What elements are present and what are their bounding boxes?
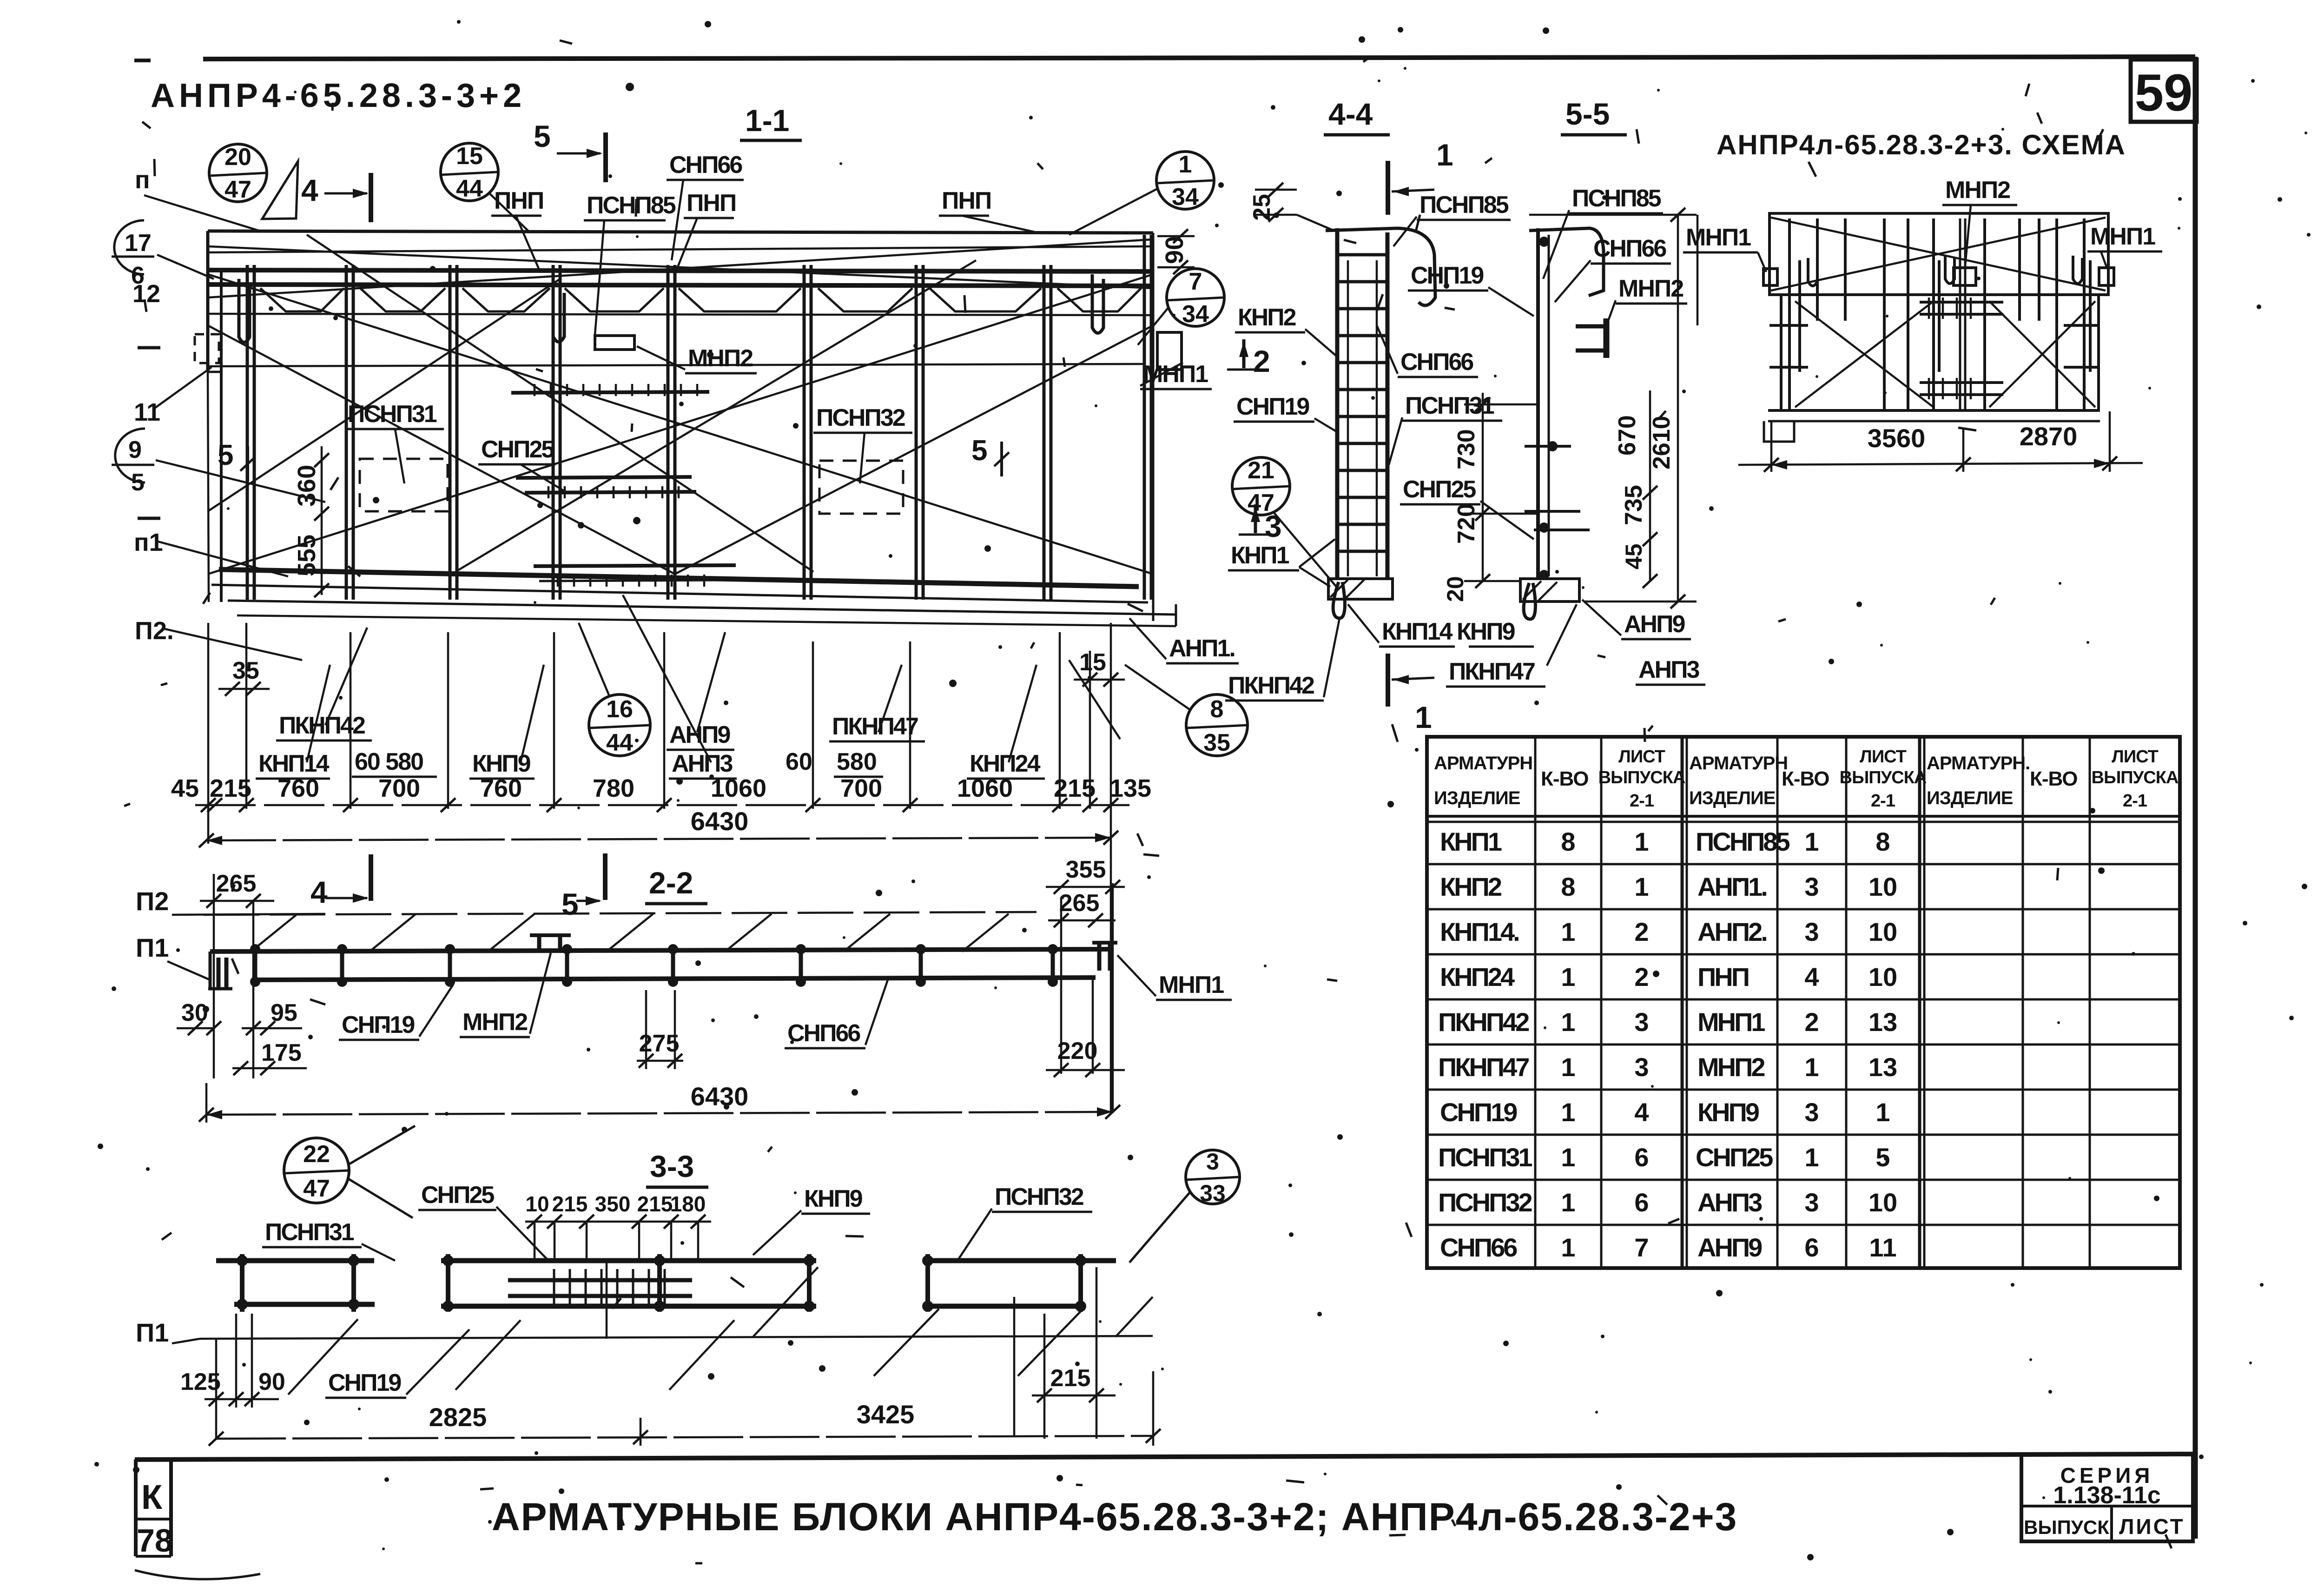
svg-text:СНП19: СНП19 <box>1440 1097 1517 1127</box>
svg-text:47: 47 <box>1248 489 1274 516</box>
dim row texts <box>171 774 1151 802</box>
svg-text:10: 10 <box>525 1192 549 1216</box>
extension lines below main view <box>208 623 1111 1112</box>
svg-text:МНП2: МНП2 <box>1618 275 1683 302</box>
svg-text:20: 20 <box>224 144 251 171</box>
2-2 left end hook <box>209 952 212 989</box>
svg-text:33: 33 <box>1200 1180 1226 1206</box>
svg-text:4: 4 <box>1804 962 1819 991</box>
svg-text:2610: 2610 <box>1648 416 1675 469</box>
svg-text:ПКНП47: ПКНП47 <box>1449 658 1535 685</box>
svg-text:ВЫПУСК: ВЫПУСК <box>2024 1516 2109 1538</box>
5-5 boot <box>1520 579 1579 602</box>
svg-text:8: 8 <box>1561 827 1575 856</box>
svg-text:720: 720 <box>1453 503 1480 544</box>
4-4 ladder rungs <box>1337 255 1387 551</box>
5-5 right vertical leader frame <box>1697 215 1699 325</box>
scheme top band diagonals <box>1771 218 2106 291</box>
svg-text:1: 1 <box>1804 1143 1819 1172</box>
3-3 dims 10 215 350 215 180 <box>525 1192 706 1216</box>
2-2 top dash line <box>204 912 1037 915</box>
svg-text:215: 215 <box>210 774 251 802</box>
svg-text:3: 3 <box>1804 1097 1819 1127</box>
svg-text:1: 1 <box>1634 827 1649 856</box>
5-5 mid bars <box>1525 510 1580 513</box>
rebar U hooks <box>239 279 250 343</box>
svg-text:ВЫПУСКА: ВЫПУСКА <box>2092 768 2179 787</box>
balloon 22/47 pennant <box>349 1126 415 1164</box>
svg-text:ИЗДЕЛИЕ: ИЗДЕЛИЕ <box>1434 788 1520 808</box>
svg-text:КНП24: КНП24 <box>1440 962 1515 991</box>
svg-text:ПКНП42: ПКНП42 <box>279 712 365 739</box>
svg-text:АНП3: АНП3 <box>1697 1188 1762 1217</box>
3-3 diagonal leaders <box>288 1267 1153 1395</box>
svg-text:6: 6 <box>1634 1143 1649 1172</box>
svg-text:АНП9: АНП9 <box>1624 611 1684 638</box>
svg-text:90: 90 <box>258 1368 285 1395</box>
svg-text:6: 6 <box>1634 1188 1649 1217</box>
scheme verticals <box>1789 218 2090 409</box>
svg-text:2-1: 2-1 <box>2123 791 2147 811</box>
svg-text:МНП1: МНП1 <box>1159 972 1224 998</box>
svg-text:К: К <box>141 1478 163 1516</box>
svg-text:6: 6 <box>1804 1233 1819 1262</box>
svg-text:АНП1.: АНП1. <box>1169 635 1235 662</box>
svg-text:10: 10 <box>1868 962 1897 991</box>
svg-text:265: 265 <box>216 870 257 897</box>
svg-text:2825: 2825 <box>429 1402 487 1432</box>
balloon 1/34 <box>1156 152 1214 209</box>
svg-text:34: 34 <box>1182 301 1209 328</box>
svg-text:1: 1 <box>1561 1052 1575 1082</box>
svg-text:КНП9: КНП9 <box>804 1185 862 1212</box>
5-5 main bars <box>1536 228 1540 578</box>
svg-text:ВЫПУСКА: ВЫПУСКА <box>1598 768 1685 787</box>
svg-text:60: 60 <box>786 748 812 775</box>
svg-text:8: 8 <box>1210 696 1224 723</box>
svg-text:12: 12 <box>132 280 160 308</box>
svg-text:1-1: 1-1 <box>745 103 789 138</box>
anchor left dashed square <box>195 334 219 363</box>
5-5 dim 730 720 20 <box>1482 393 1484 581</box>
svg-text:13: 13 <box>1868 1052 1897 1082</box>
3-3 assembly 1 <box>216 1258 374 1263</box>
scheme U hooks <box>1808 258 1817 286</box>
5-5 dots <box>1539 237 1558 580</box>
svg-text:580: 580 <box>837 748 877 775</box>
svg-text:АНП2.: АНП2. <box>1697 917 1766 946</box>
svg-text:3: 3 <box>1634 1007 1649 1037</box>
svg-text:К-ВО: К-ВО <box>1782 767 1829 790</box>
2-2 МНП1 anchor right <box>1092 941 1117 945</box>
svg-text:2-1: 2-1 <box>1871 791 1895 811</box>
svg-text:ПНП: ПНП <box>942 187 991 214</box>
title block СЕРИЯ <box>2021 1454 2193 1541</box>
svg-text:2: 2 <box>1634 962 1649 991</box>
4-4 top flange hook <box>1326 228 1435 305</box>
svg-text:700: 700 <box>378 774 420 802</box>
svg-text:ИЗДЕЛИЕ: ИЗДЕЛИЕ <box>1689 788 1776 808</box>
svg-text:1: 1 <box>1804 827 1819 856</box>
svg-text:4: 4 <box>1634 1097 1649 1127</box>
svg-text:3: 3 <box>1206 1149 1219 1175</box>
2-2 top bar <box>210 949 1113 952</box>
svg-text:СНП66: СНП66 <box>1593 235 1666 262</box>
svg-text:5: 5 <box>218 439 233 471</box>
svg-text:К-ВО: К-ВО <box>2030 767 2077 790</box>
3-3 base line <box>200 1336 1153 1339</box>
2-2 hatch diagonals <box>251 914 1009 952</box>
svg-text:4: 4 <box>301 173 318 207</box>
svg-text:К-ВО: К-ВО <box>1541 767 1588 790</box>
svg-text:3: 3 <box>1804 1188 1819 1217</box>
svg-text:355: 355 <box>1066 856 1106 883</box>
svg-text:25: 25 <box>1248 194 1275 221</box>
svg-text:2: 2 <box>1804 1007 1819 1037</box>
main view gusset row line <box>208 314 1153 315</box>
svg-text:8: 8 <box>1875 827 1890 856</box>
svg-text:П2.: П2. <box>135 617 174 645</box>
svg-text:135: 135 <box>1109 774 1151 802</box>
table data col 2 <box>1696 827 1790 1262</box>
svg-text:5: 5 <box>971 435 987 467</box>
svg-text:60 580: 60 580 <box>355 748 423 775</box>
2-2 right extension boundary <box>1112 883 1114 1112</box>
svg-text:ПСНП85: ПСНП85 <box>1696 827 1790 856</box>
svg-text:2: 2 <box>1253 344 1270 378</box>
svg-text:АНП9: АНП9 <box>1697 1233 1762 1262</box>
svg-text:п: п <box>135 166 150 194</box>
2-2 stirrups with dots <box>255 945 1053 986</box>
scheme top band <box>1769 213 2108 295</box>
svg-text:АРМАТУРН.: АРМАТУРН. <box>1927 753 2030 773</box>
svg-text:МНП2: МНП2 <box>462 1009 527 1036</box>
svg-text:СНП25: СНП25 <box>421 1182 494 1209</box>
svg-text:СНП25: СНП25 <box>1403 476 1476 503</box>
svg-text:180: 180 <box>670 1192 706 1216</box>
svg-text:ПСНП31: ПСНП31 <box>265 1219 354 1246</box>
svg-text:735: 735 <box>1620 485 1647 525</box>
svg-text:ЛИСТ: ЛИСТ <box>1860 747 1906 767</box>
svg-text:6430: 6430 <box>691 806 749 836</box>
svg-text:44: 44 <box>606 729 633 756</box>
svg-text:13: 13 <box>1868 1007 1897 1037</box>
4-4 marker 2 <box>1242 339 1246 368</box>
svg-text:ПСНП32: ПСНП32 <box>995 1183 1083 1210</box>
svg-text:КНП14 КНП9: КНП14 КНП9 <box>1382 618 1515 645</box>
dashed rect ПСНП31 target <box>360 459 448 511</box>
scheme side tick bars <box>1769 366 1808 369</box>
svg-text:7: 7 <box>1634 1233 1649 1262</box>
svg-text:1: 1 <box>1561 962 1575 991</box>
svg-text:47: 47 <box>303 1175 330 1202</box>
svg-text:ИЗДЕЛИЕ: ИЗДЕЛИЕ <box>1927 788 2013 808</box>
svg-text:СНП19: СНП19 <box>342 1011 414 1038</box>
svg-text:215: 215 <box>552 1192 588 1216</box>
svg-text:215: 215 <box>637 1192 673 1216</box>
main view bottom chord band <box>219 569 1139 587</box>
anchor МНП2 center plate <box>595 336 634 350</box>
svg-text:ПНП: ПНП <box>494 187 543 214</box>
svg-text:АНПР4л-65.28.3-2+3. СХЕМА: АНПР4л-65.28.3-2+3. СХЕМА <box>1717 129 2126 160</box>
svg-text:СНП19: СНП19 <box>328 1369 401 1396</box>
svg-text:СНП66: СНП66 <box>1440 1233 1517 1262</box>
svg-text:175: 175 <box>261 1039 302 1066</box>
svg-text:22: 22 <box>303 1141 330 1168</box>
svg-text:4: 4 <box>310 875 328 909</box>
svg-text:ЛИСТ: ЛИСТ <box>2112 747 2158 767</box>
balloon 8/35 <box>1186 694 1248 756</box>
svg-text:ПСНП31: ПСНП31 <box>348 401 437 428</box>
svg-text:ЛИСТ: ЛИСТ <box>2119 1514 2185 1539</box>
4-4 column verticals <box>1335 228 1340 578</box>
scheme bottom plate <box>1768 409 2100 412</box>
svg-text:ПКНП42: ПКНП42 <box>1438 1007 1529 1037</box>
svg-text:1: 1 <box>1561 917 1575 946</box>
dim row tick line <box>195 804 1129 806</box>
svg-text:10: 10 <box>1868 872 1897 901</box>
svg-text:П1: П1 <box>136 1318 169 1347</box>
svg-text:7: 7 <box>1189 268 1202 295</box>
svg-text:МНП1: МНП1 <box>1686 224 1751 251</box>
svg-text:МНП2: МНП2 <box>688 345 753 372</box>
svg-text:КНП2: КНП2 <box>1440 872 1501 901</box>
5-5 top flange hook <box>1529 228 1604 296</box>
svg-text:17: 17 <box>125 230 152 257</box>
svg-text:ПСНП85: ПСНП85 <box>1572 185 1661 212</box>
svg-text:П1: П1 <box>136 933 169 962</box>
svg-text:МНП1: МНП1 <box>2090 223 2155 250</box>
balloon 15/44 <box>441 143 498 201</box>
left margin leaders <box>157 255 214 279</box>
svg-text:3-3: 3-3 <box>650 1149 694 1183</box>
3-3 assembly 2 <box>441 1258 816 1263</box>
5-5 МНП2 anchor <box>1576 324 1609 329</box>
svg-text:9: 9 <box>128 436 142 463</box>
svg-text:4-4: 4-4 <box>1328 97 1373 131</box>
balloon 22/47 <box>284 1138 349 1203</box>
svg-text:МНП1: МНП1 <box>1697 1007 1765 1037</box>
svg-text:МНП1: МНП1 <box>1143 361 1208 388</box>
svg-text:555: 555 <box>293 535 321 576</box>
svg-text:47: 47 <box>224 176 251 203</box>
svg-text:3560: 3560 <box>1868 423 1926 453</box>
web mid line <box>209 364 1143 366</box>
svg-text:8: 8 <box>1561 872 1575 901</box>
svg-text:АНП3: АНП3 <box>672 750 733 777</box>
svg-text:20: 20 <box>1442 576 1468 602</box>
3-3 splice bars with hatch <box>508 1278 692 1282</box>
balloon 21/47 <box>1232 457 1290 515</box>
svg-text:ПКНП42: ПКНП42 <box>1228 672 1314 699</box>
svg-text:11: 11 <box>134 398 160 426</box>
center splice bars with hatch <box>511 392 709 393</box>
svg-text:КНП1: КНП1 <box>1231 542 1289 569</box>
balloon 20/47 pennant <box>262 161 298 219</box>
svg-text:6430: 6430 <box>691 1082 749 1111</box>
svg-text:1: 1 <box>1561 1233 1575 1262</box>
svg-text:ПКНП47: ПКНП47 <box>832 713 918 740</box>
svg-text:ЛИСТ: ЛИСТ <box>1618 747 1665 767</box>
svg-text:КНП14: КНП14 <box>258 750 330 777</box>
scheme lower band X braces <box>1795 301 1934 407</box>
svg-text:АНПР4-65.28.3-3+2: АНПР4-65.28.3-3+2 <box>151 77 526 114</box>
svg-text:2: 2 <box>1634 917 1649 946</box>
svg-text:215: 215 <box>1054 774 1096 802</box>
main view right end cap <box>1152 233 1155 621</box>
scheme lower band <box>1781 295 2099 410</box>
svg-text:1: 1 <box>1875 1097 1890 1127</box>
scan specks <box>304 36 2261 1481</box>
balloon 20/47 <box>209 144 267 202</box>
svg-text:78: 78 <box>137 1522 173 1559</box>
svg-text:КНП24: КНП24 <box>970 750 1041 777</box>
svg-text:21: 21 <box>1248 457 1274 484</box>
svg-text:125: 125 <box>180 1368 221 1395</box>
main view top chord <box>208 231 1153 233</box>
svg-text:15: 15 <box>456 143 483 170</box>
svg-text:44: 44 <box>456 175 483 202</box>
svg-text:45: 45 <box>1621 543 1647 569</box>
svg-text:ПСНП85: ПСНП85 <box>1419 192 1509 218</box>
svg-text:ПСНП32: ПСНП32 <box>1438 1188 1532 1217</box>
svg-text:АРМАТУРН: АРМАТУРН <box>1689 753 1788 773</box>
svg-text:2-1: 2-1 <box>1630 791 1654 811</box>
svg-text:ПСНП85: ПСНП85 <box>587 192 676 219</box>
balloon 16/44 <box>589 694 650 756</box>
svg-text:10: 10 <box>1868 917 1897 946</box>
svg-text:АРМАТУРНЫЕ БЛОКИ АНПР4-65.28.3: АРМАТУРНЫЕ БЛОКИ АНПР4-65.28.3-3+2; АНПР… <box>492 1495 1737 1539</box>
gussets <box>260 288 344 311</box>
svg-text:1: 1 <box>1804 1052 1819 1082</box>
svg-text:1.138-11с: 1.138-11с <box>2053 1482 2160 1509</box>
svg-text:АНП3: АНП3 <box>1638 656 1699 683</box>
svg-text:АНП1.: АНП1. <box>1697 872 1766 901</box>
main view top flange bars <box>208 270 1153 271</box>
К 78 stamp box <box>134 1460 138 1556</box>
svg-text:1: 1 <box>1634 872 1649 901</box>
2-2 bottom bar <box>253 978 1096 980</box>
svg-text:275: 275 <box>639 1030 680 1057</box>
sheet bottom frame line <box>135 1454 2195 1460</box>
svg-text:АРМАТУРН: АРМАТУРН <box>1434 753 1532 773</box>
4-4 boot <box>1328 579 1393 599</box>
svg-text:59: 59 <box>2135 64 2193 122</box>
svg-text:5: 5 <box>131 469 145 496</box>
svg-text:КНП14.: КНП14. <box>1440 917 1519 946</box>
svg-text:2870: 2870 <box>2020 422 2078 451</box>
svg-text:КНП2: КНП2 <box>1238 304 1296 331</box>
dashed rect ПСНП32 target <box>819 461 903 514</box>
scheme dims 3560 2870 <box>1770 421 1773 472</box>
svg-text:1: 1 <box>1561 1007 1575 1037</box>
svg-text:215: 215 <box>1050 1365 1091 1392</box>
svg-text:1: 1 <box>1561 1188 1575 1217</box>
balloon 3/33 <box>1186 1150 1240 1204</box>
leader strokes to labels <box>307 595 1120 762</box>
main view long diagonal lacing <box>208 235 1153 574</box>
scheme center splice <box>1920 301 2003 304</box>
svg-text:СНП25: СНП25 <box>481 436 554 463</box>
svg-text:670: 670 <box>1614 415 1641 456</box>
balloon 7/34 <box>1167 269 1224 326</box>
5-5 dim 45 735 670 2610 <box>1649 390 1651 581</box>
svg-text:15: 15 <box>1079 649 1106 676</box>
svg-text:11: 11 <box>1869 1233 1896 1262</box>
svg-text:265: 265 <box>1059 890 1100 917</box>
svg-text:16: 16 <box>606 696 633 723</box>
svg-text:2-2: 2-2 <box>649 866 693 900</box>
svg-text:730: 730 <box>1453 429 1480 469</box>
svg-text:МНП2: МНП2 <box>1697 1052 1764 1082</box>
svg-text:3: 3 <box>1804 917 1819 946</box>
svg-text:45: 45 <box>171 774 199 802</box>
table data col 1 <box>1438 827 1532 1262</box>
svg-text:ПНП: ПНП <box>1697 962 1749 991</box>
svg-text:780: 780 <box>593 774 634 802</box>
svg-text:ПКНП47: ПКНП47 <box>1438 1052 1529 1082</box>
svg-text:СНП19: СНП19 <box>1236 393 1309 420</box>
main view vertical stirrup bars <box>247 235 1151 600</box>
svg-text:ВЫПУСКА: ВЫПУСКА <box>1840 768 1927 787</box>
svg-text:35: 35 <box>232 657 259 684</box>
svg-text:СНП66: СНП66 <box>669 152 742 178</box>
svg-text:КНП1: КНП1 <box>1440 827 1502 856</box>
svg-text:350: 350 <box>595 1192 631 1216</box>
svg-text:3: 3 <box>1804 872 1819 901</box>
anchor МНП1 right square <box>1157 332 1182 370</box>
table headers <box>1434 753 2030 808</box>
svg-text:ПНП: ПНП <box>687 190 736 217</box>
svg-text:СНП66: СНП66 <box>1400 349 1473 376</box>
svg-text:ПСНП32: ПСНП32 <box>816 404 905 431</box>
svg-text:ПСНП31: ПСНП31 <box>1438 1143 1532 1172</box>
svg-text:10: 10 <box>1868 1188 1897 1217</box>
svg-text:3: 3 <box>1634 1052 1649 1082</box>
svg-text:П2: П2 <box>136 886 169 916</box>
main view left end cap <box>206 231 210 372</box>
3-3 assembly 3 <box>923 1258 1116 1263</box>
svg-text:МНП2: МНП2 <box>1945 177 2010 204</box>
svg-text:1: 1 <box>1561 1143 1575 1172</box>
svg-text:35: 35 <box>1203 729 1230 756</box>
svg-text:КНП9: КНП9 <box>1697 1097 1759 1127</box>
svg-text:34: 34 <box>1172 184 1199 211</box>
svg-text:700: 700 <box>840 774 882 802</box>
svg-text:1: 1 <box>1436 138 1453 172</box>
svg-text:220: 220 <box>1057 1038 1098 1064</box>
svg-text:5: 5 <box>561 887 579 921</box>
svg-text:5: 5 <box>534 119 551 153</box>
2-2 МНП2 T anchor <box>530 933 571 937</box>
svg-text:СНП66: СНП66 <box>787 1020 860 1047</box>
4-4 marker 3 <box>1254 504 1257 533</box>
page number box 59 <box>2131 59 2197 122</box>
svg-text:5-5: 5-5 <box>1565 97 1610 131</box>
svg-text:3425: 3425 <box>857 1400 915 1429</box>
svg-text:30: 30 <box>181 999 208 1026</box>
svg-text:1: 1 <box>1179 151 1192 178</box>
sheet right frame line <box>2193 57 2198 1539</box>
svg-text:1: 1 <box>1561 1097 1575 1127</box>
sheet top frame line <box>203 57 2195 59</box>
scheme anchors <box>1763 269 1777 285</box>
svg-text:1: 1 <box>1415 700 1432 734</box>
svg-text:СНП25: СНП25 <box>1696 1143 1773 1172</box>
